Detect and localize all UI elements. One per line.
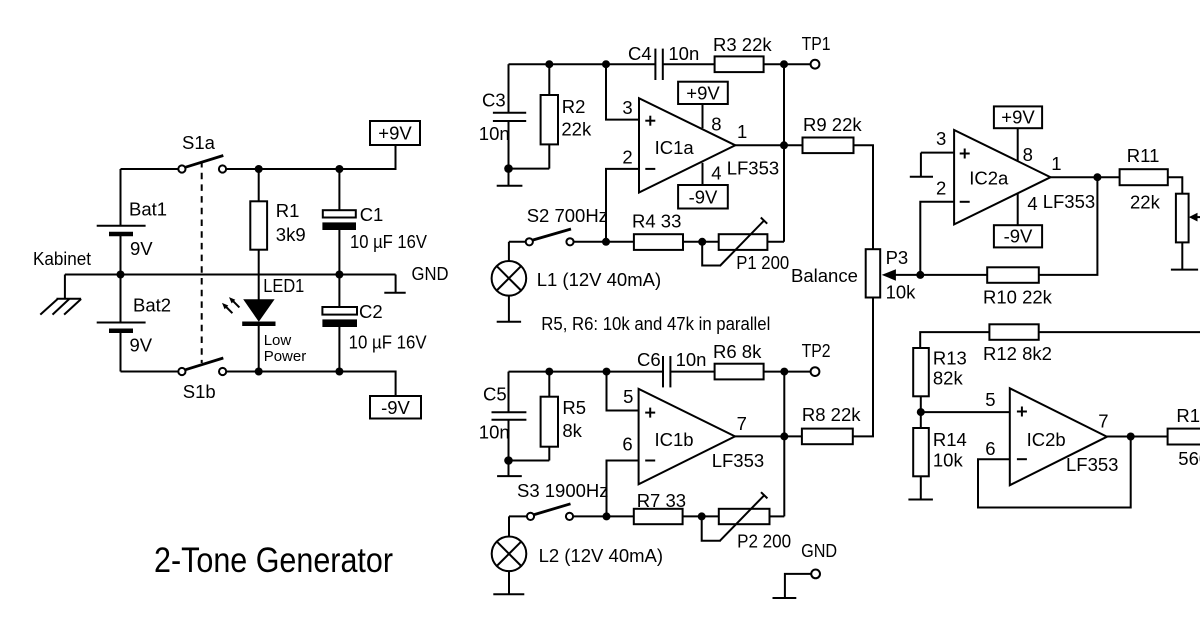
svg-text:S1b: S1b <box>183 381 216 402</box>
potentiometer P4 <box>1176 194 1200 243</box>
svg-text:82k: 82k <box>933 368 964 389</box>
wire pin5 IC1b <box>607 372 639 411</box>
switch S1a <box>178 132 226 173</box>
lamp L1 <box>492 242 662 296</box>
wire L2 to S3 <box>509 515 527 517</box>
svg-text:4: 4 <box>1027 193 1037 214</box>
battery Bat2 <box>97 275 171 372</box>
wire R12 row right <box>1039 331 1200 333</box>
svg-text:Low: Low <box>264 332 292 349</box>
resistor R14 <box>913 412 967 476</box>
op-amp U2 IC1b <box>639 389 735 485</box>
svg-text:GND: GND <box>801 540 837 561</box>
wire L1 to S2 <box>509 241 526 243</box>
svg-text:R12 8k2: R12 8k2 <box>983 343 1052 364</box>
power -9V box IC2a <box>994 225 1042 247</box>
node junction R13 R14 <box>917 408 925 416</box>
capacitor C6 <box>637 349 706 387</box>
wire R12 row left <box>920 332 989 348</box>
node junction pin6 bottom <box>603 512 611 520</box>
svg-text:LF353: LF353 <box>712 450 764 471</box>
svg-text:10k: 10k <box>886 282 917 303</box>
node junction top C1 <box>335 165 343 173</box>
LED LED1 <box>222 275 306 372</box>
svg-text:C3: C3 <box>482 90 506 111</box>
resistor R2 <box>541 64 592 168</box>
wire R9 to P3 top <box>854 145 874 249</box>
capacitor C4 <box>628 43 699 80</box>
svg-text:8: 8 <box>711 113 721 134</box>
svg-text:C1: C1 <box>360 204 384 225</box>
wire pin5 IC2b <box>921 411 1010 413</box>
node junction P3 wiper pin2 <box>916 271 924 279</box>
svg-text:LF353: LF353 <box>1066 454 1118 475</box>
switch S2 <box>526 205 608 245</box>
resistor R10 <box>983 267 1053 307</box>
svg-text:R5: R5 <box>562 397 586 418</box>
switch S1b <box>178 358 226 402</box>
wire R7 to P2 <box>683 515 719 517</box>
svg-text:2-Tone Generator: 2-Tone Generator <box>154 541 393 580</box>
node junction row2 pin5 <box>603 368 611 376</box>
svg-text:9V: 9V <box>130 335 153 356</box>
svg-text:-9V: -9V <box>689 187 718 208</box>
wire top rail from Bat1 to S1a <box>121 168 179 170</box>
wire R11 to P4 <box>1168 177 1183 194</box>
svg-text:-9V: -9V <box>381 397 410 418</box>
test point TP1 <box>802 33 831 69</box>
svg-text:IC1b: IC1b <box>655 429 694 450</box>
resistor R9 <box>803 114 863 153</box>
svg-text:P2 200: P2 200 <box>737 531 791 552</box>
svg-text:S1a: S1a <box>182 132 216 153</box>
wire row1 left segment <box>509 63 656 65</box>
svg-text:C2: C2 <box>359 301 383 322</box>
node Kabinet chassis ground <box>33 248 91 315</box>
wire bottom rail from Bat2 to S1b <box>121 371 179 373</box>
svg-text:+9V: +9V <box>378 123 412 144</box>
wire output IC2b to R15 <box>1107 436 1168 438</box>
node GND terminal left <box>384 263 448 293</box>
svg-text:+9V: +9V <box>686 83 720 104</box>
svg-text:8k: 8k <box>562 420 582 441</box>
power +9V box IC2a <box>994 106 1042 128</box>
svg-text:S2 700Hz: S2 700Hz <box>527 205 608 226</box>
svg-text:TP1: TP1 <box>802 33 831 54</box>
svg-text:R7 33: R7 33 <box>637 490 686 511</box>
wire output IC2a to R11 <box>1051 176 1120 178</box>
node junction R4 P1 wiper <box>698 238 706 246</box>
svg-text:R10 22k: R10 22k <box>983 287 1053 308</box>
wire row2 C6 to R6 <box>670 371 714 373</box>
svg-text:R1: R1 <box>276 200 300 221</box>
node junction output IC1b <box>780 432 788 440</box>
svg-text:7: 7 <box>737 413 747 434</box>
svg-text:S3 1900Hz: S3 1900Hz <box>517 480 609 501</box>
resistor R5 <box>541 372 586 461</box>
lamp L2 <box>492 516 663 571</box>
wire row1 R3 to TP1 <box>764 63 811 65</box>
power +9V box IC1a <box>678 82 728 104</box>
ground tick below R14 <box>908 476 933 499</box>
svg-text:10n: 10n <box>479 123 510 144</box>
wire R10 to output junction <box>1039 177 1098 275</box>
node junction output IC1a <box>780 141 788 149</box>
svg-text:P3: P3 <box>886 247 909 268</box>
wire pin2 IC1a <box>606 169 639 242</box>
svg-text:R13: R13 <box>933 348 967 369</box>
svg-text:R11: R11 <box>1127 145 1160 166</box>
svg-text:5: 5 <box>985 389 995 410</box>
resistor R7 <box>634 490 686 524</box>
wire S2 to R4 <box>574 241 634 243</box>
svg-text:8: 8 <box>1023 144 1033 165</box>
svg-text:6: 6 <box>985 438 995 459</box>
resistor R12 <box>983 324 1052 364</box>
wire row2 left segment <box>509 371 664 373</box>
potentiometer P1 <box>702 218 789 274</box>
svg-text:2: 2 <box>936 178 946 199</box>
wire pin6 feedback IC2b <box>978 437 1131 508</box>
svg-text:R4 33: R4 33 <box>632 211 681 232</box>
node junction row2 R5 <box>545 368 553 376</box>
wire feedback vertical x784 row2 <box>783 372 785 517</box>
power -9V terminal <box>370 396 421 419</box>
node junction output IC2a <box>1093 173 1101 181</box>
wire pin6 IC1b <box>607 461 639 517</box>
ground tick below C3 <box>497 169 523 186</box>
wire pin2 IC2a <box>920 202 954 275</box>
ground tick pin3 IC2a <box>910 153 933 177</box>
node junction output IC2b <box>1127 433 1135 441</box>
capacitor C3 <box>479 64 526 168</box>
ground tick below L1 <box>497 296 521 322</box>
wire bottom rail from S1b to -9V <box>226 372 395 397</box>
svg-text:R14: R14 <box>933 429 967 450</box>
node junction C5 bottom <box>504 456 513 465</box>
node junction pin2 bottom <box>602 238 610 246</box>
svg-text:4: 4 <box>711 163 721 184</box>
node junction C3 bottom <box>504 164 513 173</box>
svg-text:10n: 10n <box>668 43 699 64</box>
svg-text:Balance: Balance <box>791 265 858 286</box>
svg-text:Kabinet: Kabinet <box>33 248 91 269</box>
wire pin3 IC2a <box>921 152 954 154</box>
resistor R4 <box>632 211 683 250</box>
svg-text:10n: 10n <box>479 422 510 443</box>
svg-text:10 µF 16V: 10 µF 16V <box>350 231 428 252</box>
svg-text:22k: 22k <box>1130 192 1161 213</box>
node junction row2 feedback <box>780 368 788 376</box>
node junction top R1 <box>255 165 263 173</box>
svg-text:22k: 22k <box>561 119 592 140</box>
wire P1 to feedback vertical <box>767 241 784 243</box>
svg-text:R9 22k: R9 22k <box>803 114 862 135</box>
wire pin4 stub IC2a <box>1017 193 1019 225</box>
svg-text:3: 3 <box>936 128 946 149</box>
wire GND rail <box>65 274 396 276</box>
power -9V box IC1a <box>678 185 728 209</box>
svg-text:C5: C5 <box>483 384 507 405</box>
node junction GND Bat <box>117 271 125 279</box>
wire R4 to P1 <box>683 241 719 243</box>
svg-text:IC1a: IC1a <box>655 137 695 158</box>
svg-text:R2: R2 <box>562 96 586 117</box>
resistor R11 <box>1120 145 1168 213</box>
svg-text:3k9: 3k9 <box>276 224 306 245</box>
svg-text:C6: C6 <box>637 349 661 370</box>
svg-text:P1 200: P1 200 <box>736 252 789 273</box>
svg-text:R3 22k: R3 22k <box>713 34 772 55</box>
svg-text:10k: 10k <box>933 449 964 470</box>
dashed gang line S1a-S1b <box>201 161 203 363</box>
svg-text:+9V: +9V <box>1001 107 1035 128</box>
wire row2 R6 to TP2 <box>764 371 811 373</box>
svg-text:IC2a: IC2a <box>969 168 1009 189</box>
wire P2 to feedback vertical <box>770 515 785 517</box>
svg-text:5: 5 <box>623 386 633 407</box>
resistor R13 <box>913 348 967 397</box>
node junction bottom C2 <box>335 368 343 376</box>
op-amp U4 IC2b <box>1010 388 1107 485</box>
svg-text:9V: 9V <box>130 238 153 259</box>
resistor R1 <box>250 169 305 300</box>
wire output IC1a to R9 <box>735 144 804 146</box>
power +9V terminal <box>370 121 420 145</box>
ground tick below L2 <box>493 571 524 594</box>
wire pin8 stub IC1a <box>702 104 704 128</box>
svg-text:10 µF 16V: 10 µF 16V <box>349 332 428 353</box>
wire pin8 stub IC2a <box>1017 128 1019 161</box>
wire R8 to P3 bottom <box>853 298 873 437</box>
switch S3 <box>517 480 609 520</box>
op-amp U3 IC2a <box>954 130 1050 224</box>
svg-text:IC2b: IC2b <box>1027 429 1066 450</box>
svg-text:1: 1 <box>737 121 747 142</box>
capacitor C1 <box>322 169 427 275</box>
svg-text:L1 (12V 40mA): L1 (12V 40mA) <box>537 269 661 290</box>
ground tick below C5 <box>497 461 522 477</box>
resistor R3 <box>713 34 772 72</box>
potentiometer P2 <box>702 492 791 551</box>
wire R10 row <box>920 274 987 276</box>
node junction R7 P2 wiper <box>698 512 706 520</box>
wire row1 C4 to R3 <box>663 63 715 65</box>
wire pin4 stub IC1a <box>702 163 704 185</box>
svg-text:LF353: LF353 <box>727 158 779 179</box>
wire R13 to node <box>920 396 922 412</box>
svg-text:Bat2: Bat2 <box>133 295 171 316</box>
svg-text:C4: C4 <box>628 43 652 64</box>
svg-text:1: 1 <box>1051 153 1061 174</box>
svg-text:7: 7 <box>1098 411 1108 432</box>
svg-text:Bat1: Bat1 <box>129 199 167 220</box>
svg-text:-9V: -9V <box>1004 226 1033 247</box>
node junction bottom LED <box>255 368 263 376</box>
svg-text:R6 8k: R6 8k <box>713 341 762 362</box>
wire C3 R2 bottom link <box>509 168 550 170</box>
op-amp U1 IC1a <box>639 98 735 192</box>
svg-text:10n: 10n <box>676 349 707 370</box>
test point TP2 <box>802 340 831 376</box>
resistor R6 <box>713 341 764 379</box>
svg-text:LED1: LED1 <box>263 275 304 296</box>
potentiometer P3 <box>866 247 921 303</box>
node junction GND C1C2 <box>335 271 343 279</box>
wire S3 to R7 <box>573 515 634 517</box>
node junction row1 R2 <box>545 60 553 68</box>
capacitor C2 <box>322 275 427 372</box>
wire feedback vertical x784 <box>783 64 785 242</box>
capacitor C5 <box>479 372 527 461</box>
node GND terminal center <box>773 540 838 598</box>
svg-text:TP2: TP2 <box>802 340 831 361</box>
ground tick below P4 <box>1171 242 1198 269</box>
svg-text:R15: R15 <box>1176 405 1200 426</box>
svg-text:6: 6 <box>622 434 632 455</box>
wire pin3 IC1a <box>606 64 639 119</box>
svg-text:560: 560 <box>1178 448 1200 469</box>
svg-text:LF353: LF353 <box>1043 191 1095 212</box>
svg-text:R5, R6: 10k and 47k in paralle: R5, R6: 10k and 47k in parallel <box>541 313 770 334</box>
svg-text:2: 2 <box>622 147 632 168</box>
node junction row1 pin3 <box>602 60 610 68</box>
wire output IC1b to R8 <box>735 435 802 437</box>
svg-text:3: 3 <box>622 97 632 118</box>
resistor R15 <box>1168 405 1200 469</box>
battery Bat1 <box>97 169 167 275</box>
resistor R8 <box>802 404 861 444</box>
svg-text:R8 22k: R8 22k <box>802 404 861 425</box>
node junction row1 feedback <box>780 60 788 68</box>
wire top rail from S1a to +9V <box>226 145 395 169</box>
svg-text:Power: Power <box>264 348 307 365</box>
svg-text:L2 (12V 40mA): L2 (12V 40mA) <box>539 545 663 566</box>
wire C5 R5 bottom link <box>509 460 550 462</box>
svg-text:GND: GND <box>412 263 449 284</box>
